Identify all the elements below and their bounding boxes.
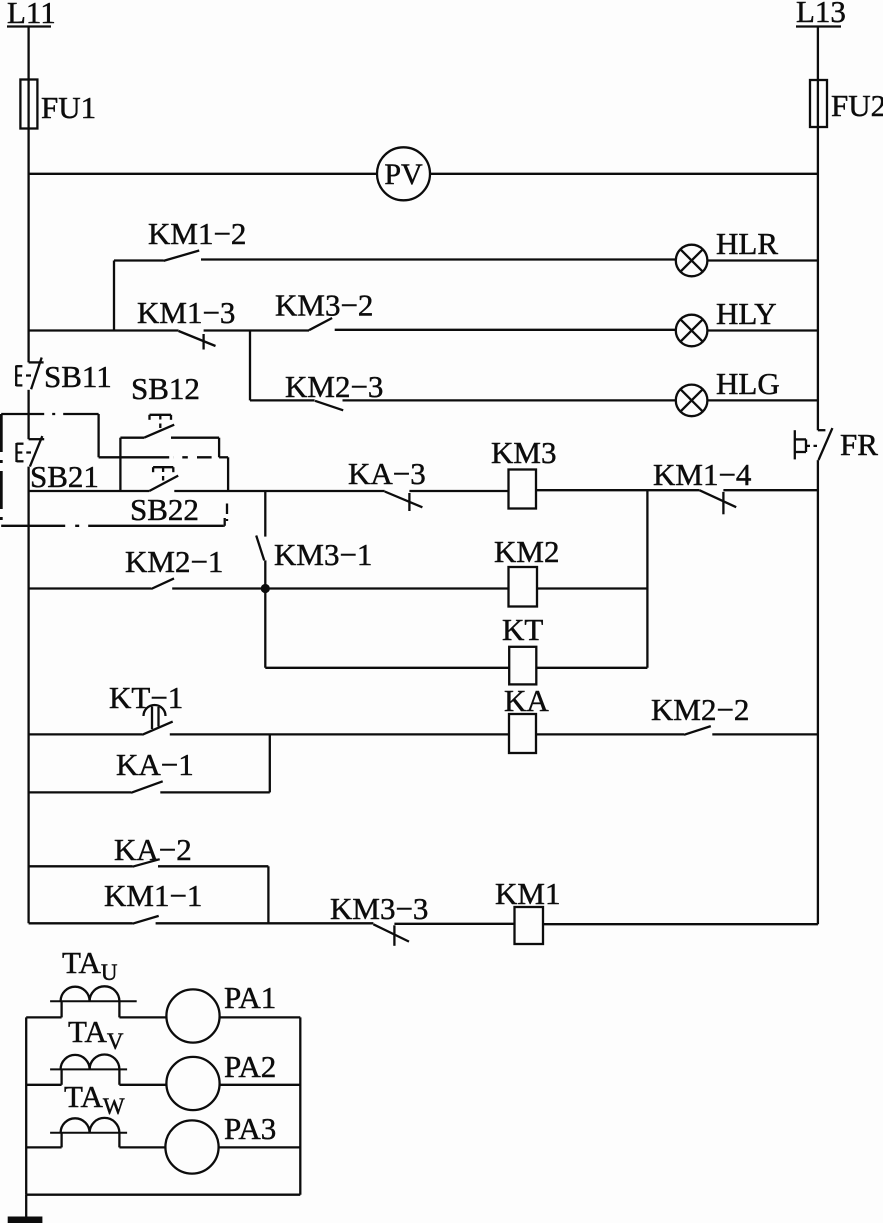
svg-text:PA2: PA2 [224, 1049, 276, 1084]
thermal relay contact FR [795, 427, 878, 462]
ammeter PA3 [165, 1111, 276, 1174]
contact KA-2 [114, 832, 192, 867]
voltmeter PV [377, 147, 430, 200]
svg-text:TAW: TAW [64, 1079, 125, 1119]
ammeter PA1 [166, 980, 276, 1043]
wire PV row [29, 173, 818, 175]
wire HLR row [114, 260, 818, 331]
wire HLY row [29, 329, 818, 332]
contact KM3-2 [275, 288, 373, 331]
wire left bus [27, 27, 29, 924]
svg-text:KM2−1: KM2−1 [125, 544, 223, 579]
svg-text:SB12: SB12 [131, 371, 200, 406]
wire PA1 row [26, 1016, 300, 1018]
svg-text:HLG: HLG [716, 366, 780, 401]
svg-text:KM3−1: KM3−1 [274, 537, 372, 572]
pushbutton SB21 [17, 436, 99, 494]
contact KM2-2 [651, 692, 749, 735]
svg-text:TAV: TAV [68, 1014, 124, 1054]
contact KM3-1 [256, 491, 372, 668]
svg-text:FU2: FU2 [831, 88, 883, 123]
contact KM1-3 [137, 295, 235, 350]
wire meter loop [26, 1017, 300, 1219]
wire right bus [817, 27, 819, 925]
svg-text:PV: PV [384, 158, 423, 191]
coil KM1 [495, 876, 560, 944]
wire KA-1 row [29, 734, 270, 792]
svg-text:FR: FR [840, 427, 878, 462]
ammeter PA2 [166, 1049, 276, 1110]
node L13 [796, 0, 846, 29]
lamp HLR [676, 226, 779, 276]
pushbutton SB22 [130, 467, 199, 527]
svg-text:KM1−2: KM1−2 [148, 216, 246, 251]
contact KM1-2 [148, 216, 246, 261]
fuse FU1 [20, 80, 96, 129]
wire KM1 row [29, 922, 818, 925]
wire KM2 row [29, 587, 648, 589]
lamp HLY [676, 296, 777, 346]
current transformer TAw [50, 1079, 127, 1147]
wire KA row [29, 733, 818, 735]
svg-text:L13: L13 [796, 0, 846, 29]
coil KT [502, 612, 543, 684]
svg-text:PA3: PA3 [224, 1111, 276, 1146]
svg-text:KM1−3: KM1−3 [137, 295, 235, 330]
current transformer TAu [50, 945, 137, 1017]
wire KM3 row [29, 489, 818, 492]
wire KA-2 row [29, 866, 269, 923]
wire PA2 row [26, 1084, 300, 1086]
wire SB12 branch [120, 438, 228, 491]
svg-text:KM3−3: KM3−3 [330, 891, 428, 926]
svg-text:KM2−2: KM2−2 [651, 692, 749, 727]
contact KM1-4 [653, 457, 752, 514]
contact KM3-3 [330, 891, 428, 946]
wire PA3 row [26, 1146, 300, 1148]
svg-text:KM2−3: KM2−3 [285, 369, 383, 404]
svg-text:KA−1: KA−1 [116, 747, 194, 782]
contact KM2-3 [285, 369, 383, 410]
svg-text:KM1−4: KM1−4 [653, 457, 752, 492]
junction dot [261, 584, 270, 593]
mechanical linkage dash-dot box [1, 414, 227, 526]
coil KM3 [491, 435, 556, 509]
svg-text:SB11: SB11 [44, 359, 112, 394]
svg-text:KM3−2: KM3−2 [275, 288, 373, 323]
contact KM1-1 [104, 878, 202, 924]
coil KA [504, 683, 549, 753]
fuse FU2 [810, 80, 883, 127]
svg-text:KM2: KM2 [494, 534, 559, 569]
svg-text:SB21: SB21 [30, 459, 99, 494]
svg-text:HLY: HLY [716, 296, 777, 331]
contact KA-3 [348, 456, 426, 511]
pushbutton SB12 [120, 371, 219, 438]
ground [8, 1217, 43, 1223]
contact KM2-1 [125, 544, 223, 589]
svg-text:KA: KA [504, 683, 549, 718]
pushbutton SB11 [16, 358, 112, 395]
svg-text:KT: KT [502, 612, 543, 647]
svg-text:SB22: SB22 [130, 492, 199, 527]
svg-text:KM1: KM1 [495, 876, 560, 911]
svg-text:PA1: PA1 [224, 980, 276, 1015]
time-delay contact KT-1 [109, 680, 183, 735]
wire KT row [265, 490, 647, 668]
contact KA-1 [116, 747, 194, 793]
current transformer TAv [50, 1014, 127, 1085]
svg-text:FU1: FU1 [41, 90, 96, 125]
svg-text:KA−3: KA−3 [348, 456, 426, 491]
coil KM2 [494, 534, 559, 607]
node L11 [7, 0, 56, 30]
svg-text:TAU: TAU [62, 945, 118, 985]
svg-text:KM1−1: KM1−1 [104, 878, 202, 913]
svg-text:KM3: KM3 [491, 435, 556, 470]
svg-text:HLR: HLR [716, 226, 778, 261]
lamp HLG [676, 366, 780, 416]
wire HLG row [250, 331, 818, 401]
